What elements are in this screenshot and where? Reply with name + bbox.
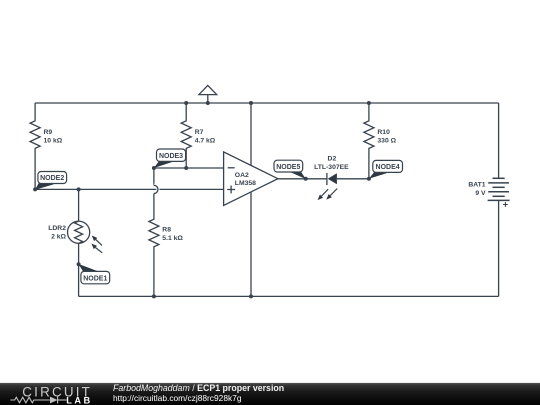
LED D2 light arrow 1	[91, 189, 337, 253]
svg-text:FarbodMoghaddam / ECP1 proper: FarbodMoghaddam / ECP1 proper version	[113, 383, 284, 393]
op-amp OA2 triangle	[224, 152, 278, 206]
junction R7 top rail	[184, 101, 188, 105]
LED D2 cathode bar	[326, 173, 328, 185]
junction power stem top rail	[206, 101, 210, 105]
wire op-amp minus input net	[154, 167, 224, 169]
op-amp plus sign	[227, 186, 235, 194]
svg-text:2 kΩ: 2 kΩ	[51, 233, 66, 240]
svg-text:LTL-307EE: LTL-307EE	[314, 164, 349, 171]
svg-text:http://circuitlab.com/czj88rc9: http://circuitlab.com/czj88rc928k7g	[113, 393, 242, 403]
resistor R10	[364, 103, 374, 179]
svg-text:NODE5: NODE5	[276, 164, 300, 171]
wire op-amp output to LED	[278, 178, 327, 180]
junction R8 bottom rail	[152, 294, 156, 298]
op-amp minus sign	[228, 167, 235, 169]
junction LDR2 mid rail	[77, 187, 81, 191]
junction R10 top rail	[367, 101, 371, 105]
svg-text:LAB: LAB	[66, 395, 92, 405]
node NODE5 callout	[274, 160, 306, 179]
svg-text:10 kΩ: 10 kΩ	[44, 138, 63, 145]
junction op-amp V+ stub top rail	[249, 101, 253, 105]
resistor R8	[149, 194, 159, 297]
wire LDR2 top lead	[78, 189, 80, 221]
component labels	[44, 129, 487, 242]
junction node NODE5 anchor	[304, 177, 308, 181]
op-amp OA2 power stubs	[250, 103, 252, 165]
junction node NODE3 anchor	[152, 166, 156, 170]
wire top rail	[35, 102, 499, 104]
svg-text:LDR2: LDR2	[48, 225, 66, 232]
wire mid rail (op-amp + input net)	[35, 188, 224, 190]
svg-text:NODE1: NODE1	[83, 275, 107, 282]
wire hop over mid rail	[154, 185, 158, 193]
battery BAT1 plates	[493, 177, 505, 179]
battery plus sign	[503, 202, 508, 207]
svg-text:330 Ω: 330 Ω	[377, 138, 396, 145]
junction node NODE1 anchor	[77, 262, 81, 266]
svg-text:D2: D2	[328, 155, 337, 162]
svg-text:R7: R7	[195, 129, 204, 136]
photoresistor LDR2	[68, 221, 90, 243]
battery BAT1 bottom lead	[498, 200, 500, 296]
svg-text:BAT1: BAT1	[468, 182, 485, 189]
svg-text:NODE4: NODE4	[376, 164, 400, 171]
logo mini schematic wire+resistor+diode	[10, 397, 66, 404]
LDR2 light arrow 1	[96, 240, 102, 246]
svg-text:OA2: OA2	[235, 172, 249, 179]
node NODE3 callout	[154, 149, 186, 168]
svg-text:9 V: 9 V	[475, 190, 486, 197]
node NODE4 callout	[369, 160, 403, 178]
junction op-amp V- stub bottom rail	[249, 294, 253, 298]
wire LED to node4	[337, 178, 369, 180]
junction node NODE4 anchor / R10 bottom	[367, 177, 371, 181]
svg-text:NODE3: NODE3	[159, 153, 183, 160]
wire node3 vertical upper	[153, 168, 155, 185]
svg-text:NODE2: NODE2	[40, 175, 64, 182]
svg-text:5.1 kΩ: 5.1 kΩ	[162, 235, 183, 242]
battery BAT1 top lead	[498, 103, 500, 178]
svg-text:R10: R10	[377, 129, 390, 136]
power symbol V+	[207, 95, 209, 103]
resistor R9	[30, 103, 40, 189]
LDR2 light arrow 2	[95, 248, 102, 253]
LED D2 light arrow 2	[330, 189, 337, 196]
svg-text:R8: R8	[162, 226, 171, 233]
node NODE2 callout	[35, 172, 67, 190]
junction R7 bottom / minus net	[184, 166, 188, 170]
node NODE1 callout	[78, 264, 109, 284]
wire bottom rail	[79, 295, 499, 297]
svg-text:R9: R9	[44, 129, 53, 136]
wire LDR2 bottom lead	[78, 243, 80, 296]
footer bar	[0, 383, 540, 405]
junction node NODE2 anchor	[33, 187, 37, 191]
LED D2 triangle	[328, 173, 337, 184]
svg-text:4.7 kΩ: 4.7 kΩ	[195, 138, 216, 145]
resistor R7	[181, 103, 191, 168]
svg-text:LM358: LM358	[235, 180, 256, 187]
